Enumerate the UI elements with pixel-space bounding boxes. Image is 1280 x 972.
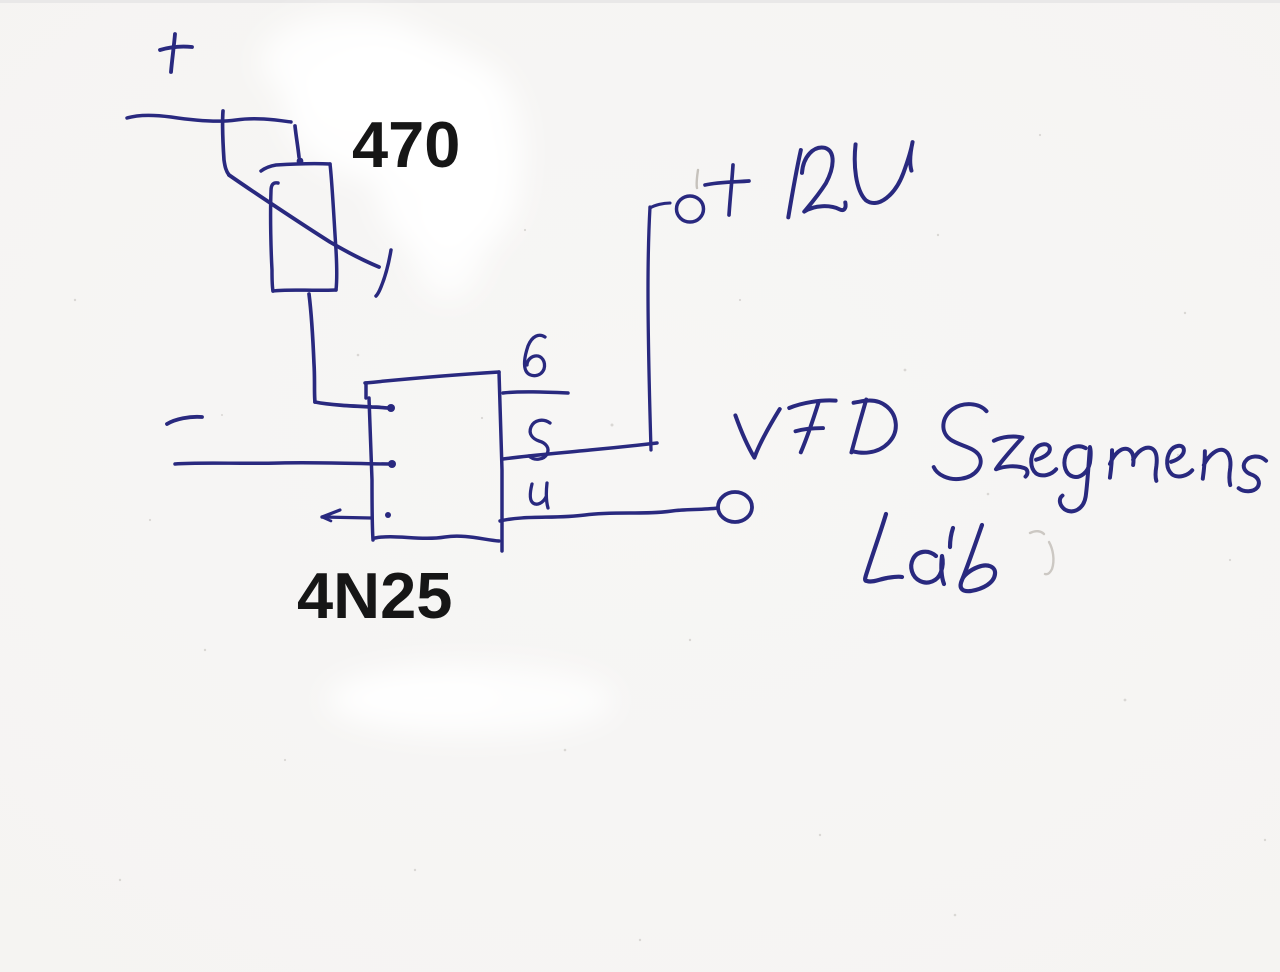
terminal circle +12V: [677, 196, 704, 222]
pin 3 inner dot: [385, 512, 391, 518]
node blob at resistor top: [297, 158, 304, 165]
wire: vertical tick through + wire: [223, 111, 229, 175]
minus terminal label: [167, 417, 202, 424]
white-out blob below 4N25: [325, 664, 615, 736]
wire: resistor bottom down: [309, 294, 315, 402]
wire: riser to +12V: [648, 207, 651, 450]
wire: pin 3 with arrow: [322, 517, 371, 518]
pin 2 end blob: [388, 460, 396, 468]
pin label 6: [525, 335, 545, 375]
wire: pin 4 to VFD terminal: [500, 508, 718, 521]
wire: pin 5: [503, 443, 657, 459]
wire: stub from + wire into resistor top: [295, 126, 299, 157]
optocoupler U1 4N25 body: [365, 372, 502, 551]
terminal circle VFD: [718, 492, 752, 522]
resistor R1 body (hand-drawn box): [261, 164, 337, 291]
wire: pin 6: [503, 392, 568, 393]
handwritten VFD Szegmens: [735, 400, 1266, 512]
pin label 5: [529, 420, 550, 459]
svg-text:4N25: 4N25: [297, 559, 452, 632]
white-out blob behind 470: [260, 14, 524, 300]
wire: corner to opto pin 1: [315, 402, 390, 408]
junction dot pin 1: [387, 404, 395, 412]
resistor R 470 diagonal strike: [229, 175, 379, 267]
arrowhead pin 3: [322, 510, 340, 517]
wire: pin 2 input: [175, 463, 392, 464]
wire: + supply horizontal: [127, 115, 291, 122]
diagonal end hook: [376, 250, 391, 296]
riser top tick: [650, 203, 670, 208]
pin label 4: [530, 483, 548, 508]
plus sign of 12V: [705, 165, 749, 215]
handwritten Lab: [865, 514, 995, 591]
svg-text:470: 470: [352, 108, 460, 181]
faint pencil mark near 12V circle: [697, 170, 698, 188]
plus terminal (battery +) top left: [160, 34, 192, 72]
faint pencil mark right of Lab: [1030, 531, 1053, 574]
handwritten 12U: [788, 142, 912, 217]
